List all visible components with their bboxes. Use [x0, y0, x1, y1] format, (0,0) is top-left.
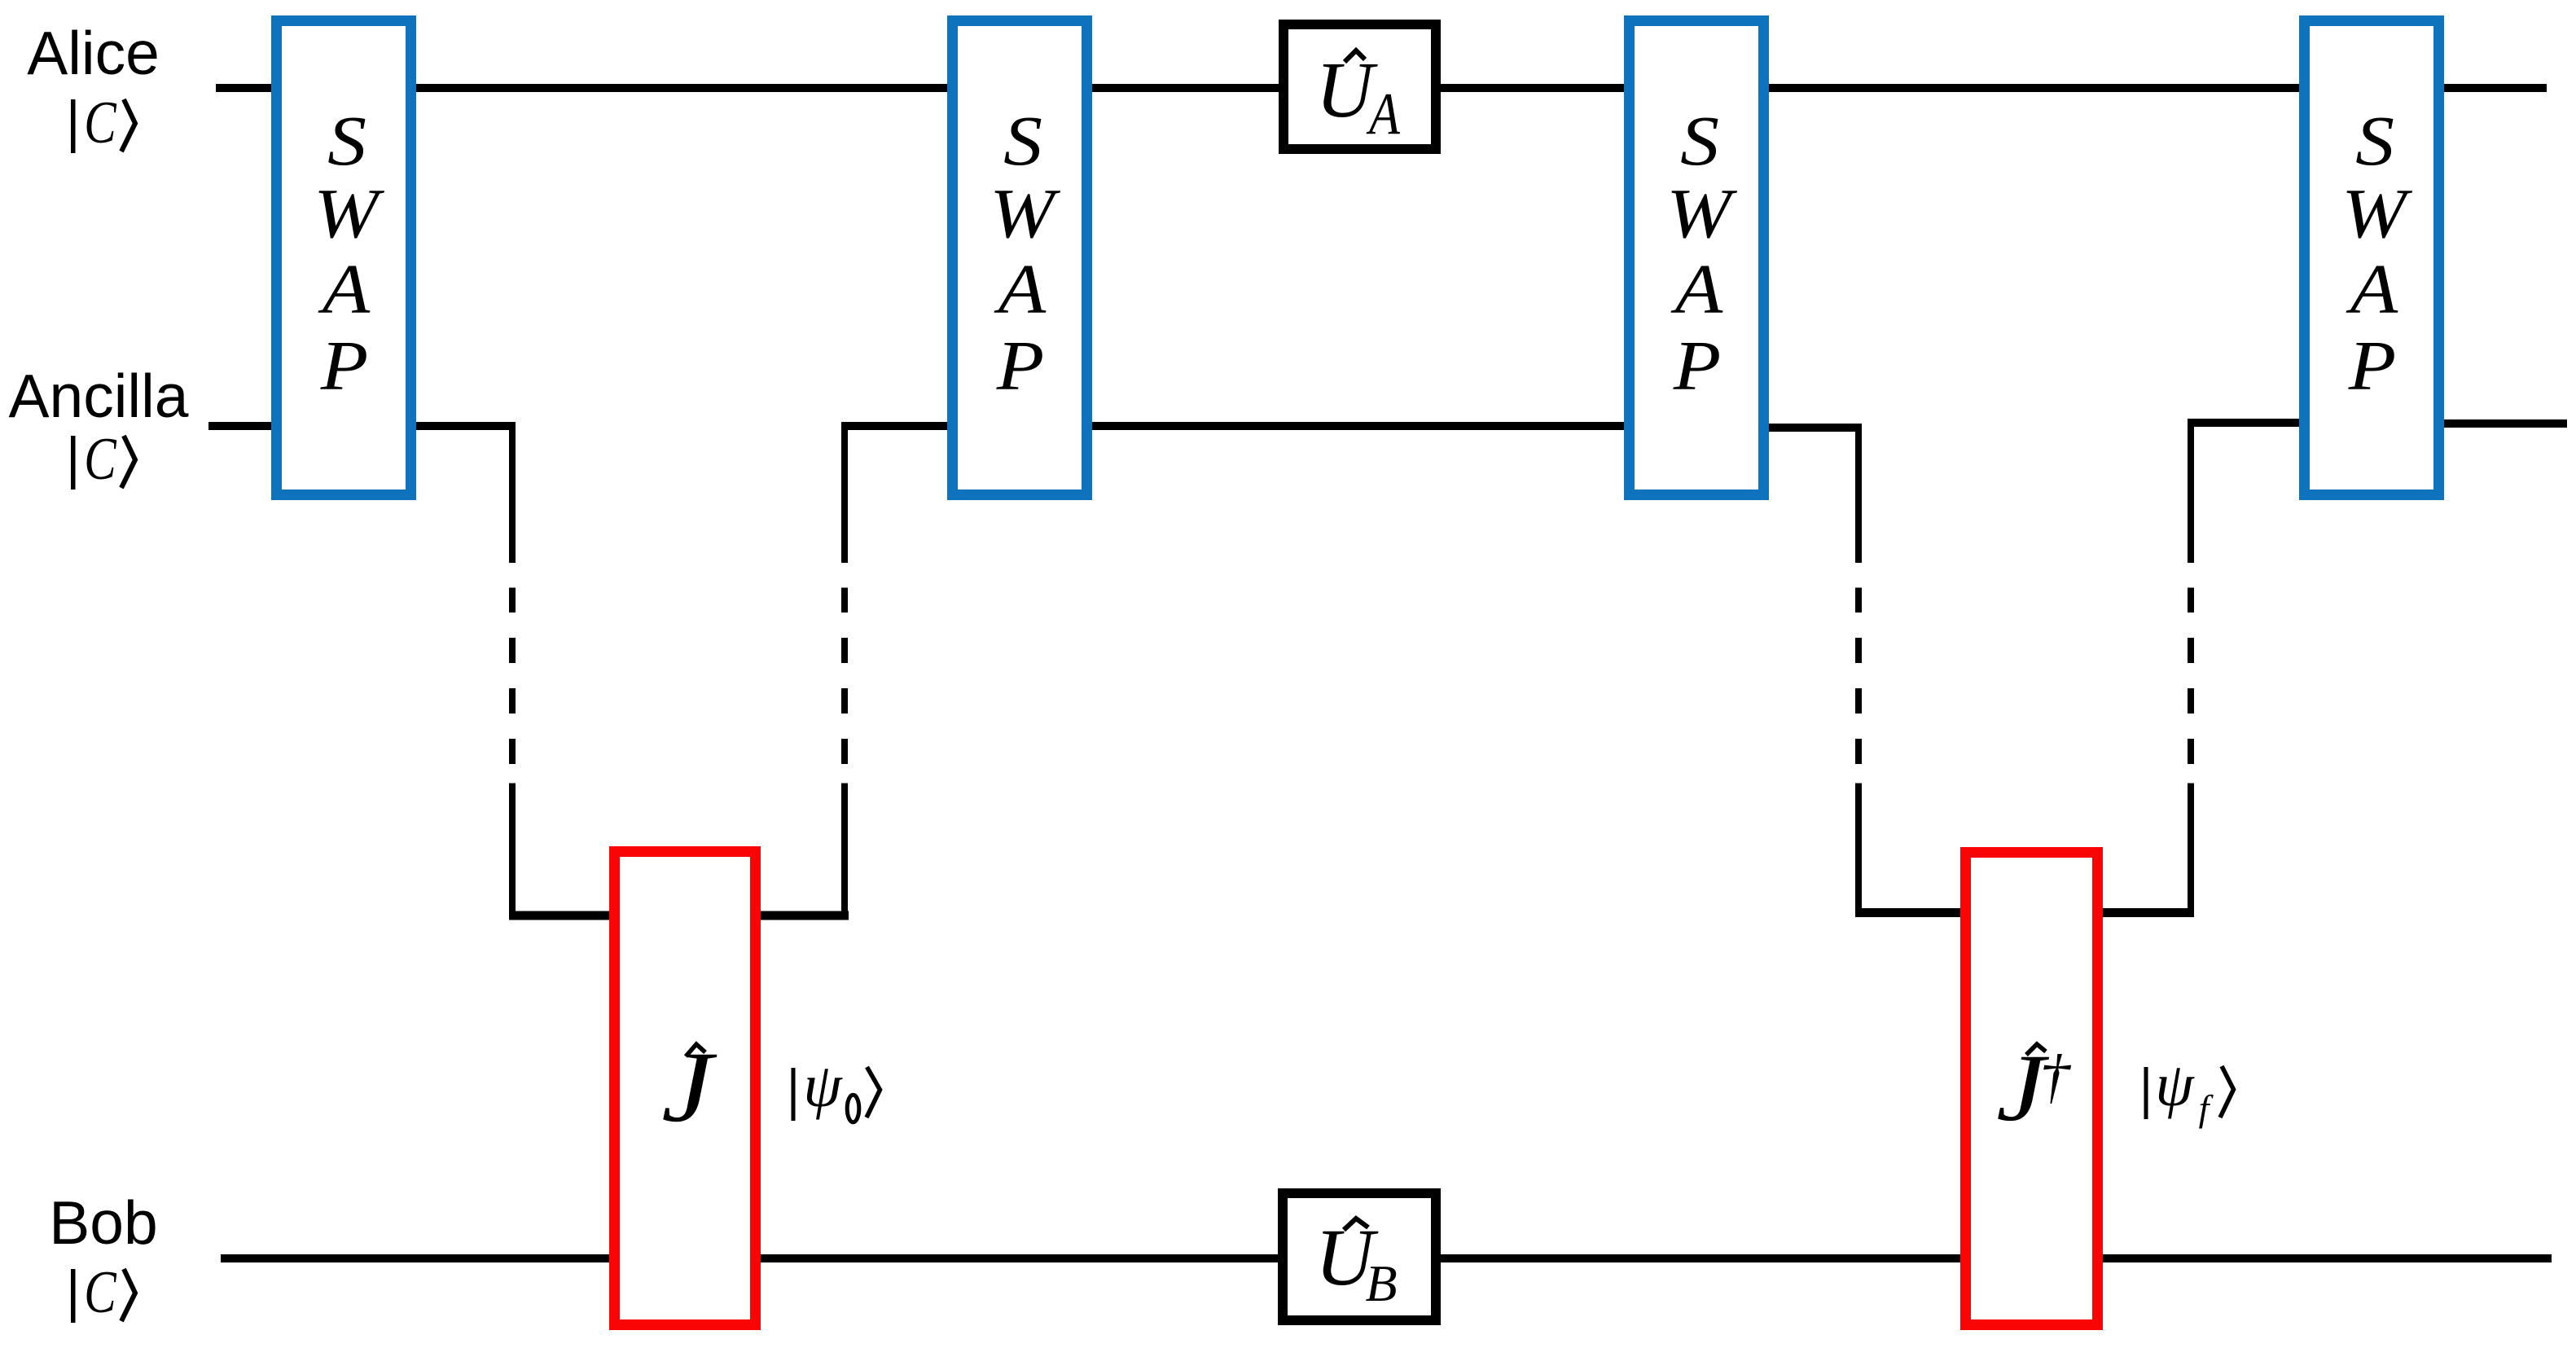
SWAP gate 1: [277, 21, 411, 495]
svg-text:A: A: [1366, 81, 1400, 147]
label Alice ket C: [73, 90, 135, 156]
operator box U_A: [1284, 24, 1436, 149]
J gate box red: [615, 852, 756, 1325]
svg-text:Ancilla: Ancilla: [9, 362, 189, 430]
svg-text:ψ: ψ: [803, 1052, 843, 1120]
SWAP gate 4: [2305, 21, 2439, 495]
wire Ancilla qubit line: [208, 423, 2567, 428]
wire dashed connector V4 Jdag-to-Ancilla right: [2188, 419, 2194, 917]
wire dashed connector V1 Ancilla-to-J left: [509, 422, 516, 920]
svg-text:Alice: Alice: [27, 19, 160, 87]
wire dashed connector V2 J-to-Ancilla right: [841, 422, 848, 920]
SWAP gate 3: [1630, 21, 1764, 495]
label psi_0 state: [793, 1052, 880, 1122]
Jdag gate box red: [1966, 853, 2098, 1325]
label psi_f state: [2146, 1051, 2234, 1129]
wire Alice qubit line: [216, 84, 2547, 92]
SWAP gate 2: [953, 21, 1087, 495]
label Bob ket C: [73, 1259, 135, 1326]
operator box U_B: [1283, 1193, 1436, 1320]
label Ancilla ket C: [73, 426, 135, 493]
wire horizontal connectors into Jdag: [1855, 908, 2194, 917]
svg-text:Bob: Bob: [49, 1188, 157, 1257]
svg-text:†: †: [2039, 1043, 2071, 1110]
svg-text:ψ: ψ: [2155, 1051, 2195, 1119]
svg-text:J: J: [661, 1031, 718, 1143]
wire dashed connector V3 Ancilla-to-Jdag left: [1855, 424, 1862, 917]
svg-text:B: B: [1365, 1254, 1397, 1312]
wire Bob qubit line: [221, 1254, 2552, 1262]
wire horizontal connectors into J: [509, 911, 849, 920]
